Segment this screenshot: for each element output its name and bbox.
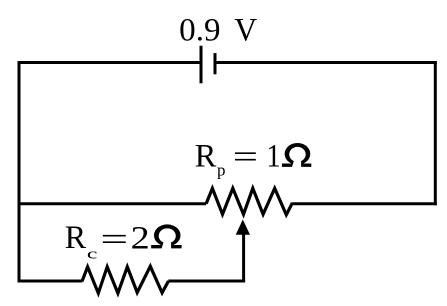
wire left vertical xyxy=(18,61,21,283)
svg-text:p: p xyxy=(217,161,226,180)
wire bottom segment xyxy=(18,280,83,283)
wire middle-left stub xyxy=(18,202,206,205)
svg-text:R: R xyxy=(195,139,217,175)
svg-text:V: V xyxy=(234,13,257,49)
wire top-right segment xyxy=(215,61,437,64)
wiper arrowhead xyxy=(236,220,250,235)
wire wiper vertical xyxy=(242,232,245,283)
svg-text:c: c xyxy=(87,247,98,263)
svg-text:0.9: 0.9 xyxy=(179,13,220,49)
svg-text:2: 2 xyxy=(131,221,150,257)
battery V1 xyxy=(201,46,215,84)
resistor Rc value label Rc = 2 ohm xyxy=(65,220,182,263)
wire middle-right stub xyxy=(292,202,437,205)
wire top-left segment xyxy=(18,61,201,64)
svg-text:R: R xyxy=(65,220,86,256)
wire right vertical xyxy=(434,61,437,205)
svg-text:=: = xyxy=(100,222,128,258)
resistor Rp value label Rp = 1 ohm xyxy=(195,139,312,180)
svg-text:1: 1 xyxy=(266,139,280,175)
battery value label 0.9 V xyxy=(179,13,257,49)
resistor Rp xyxy=(206,188,292,215)
wire bottom-right segment to wiper xyxy=(168,280,245,283)
resistor Rc xyxy=(82,266,169,293)
svg-text:=: = xyxy=(233,140,258,176)
